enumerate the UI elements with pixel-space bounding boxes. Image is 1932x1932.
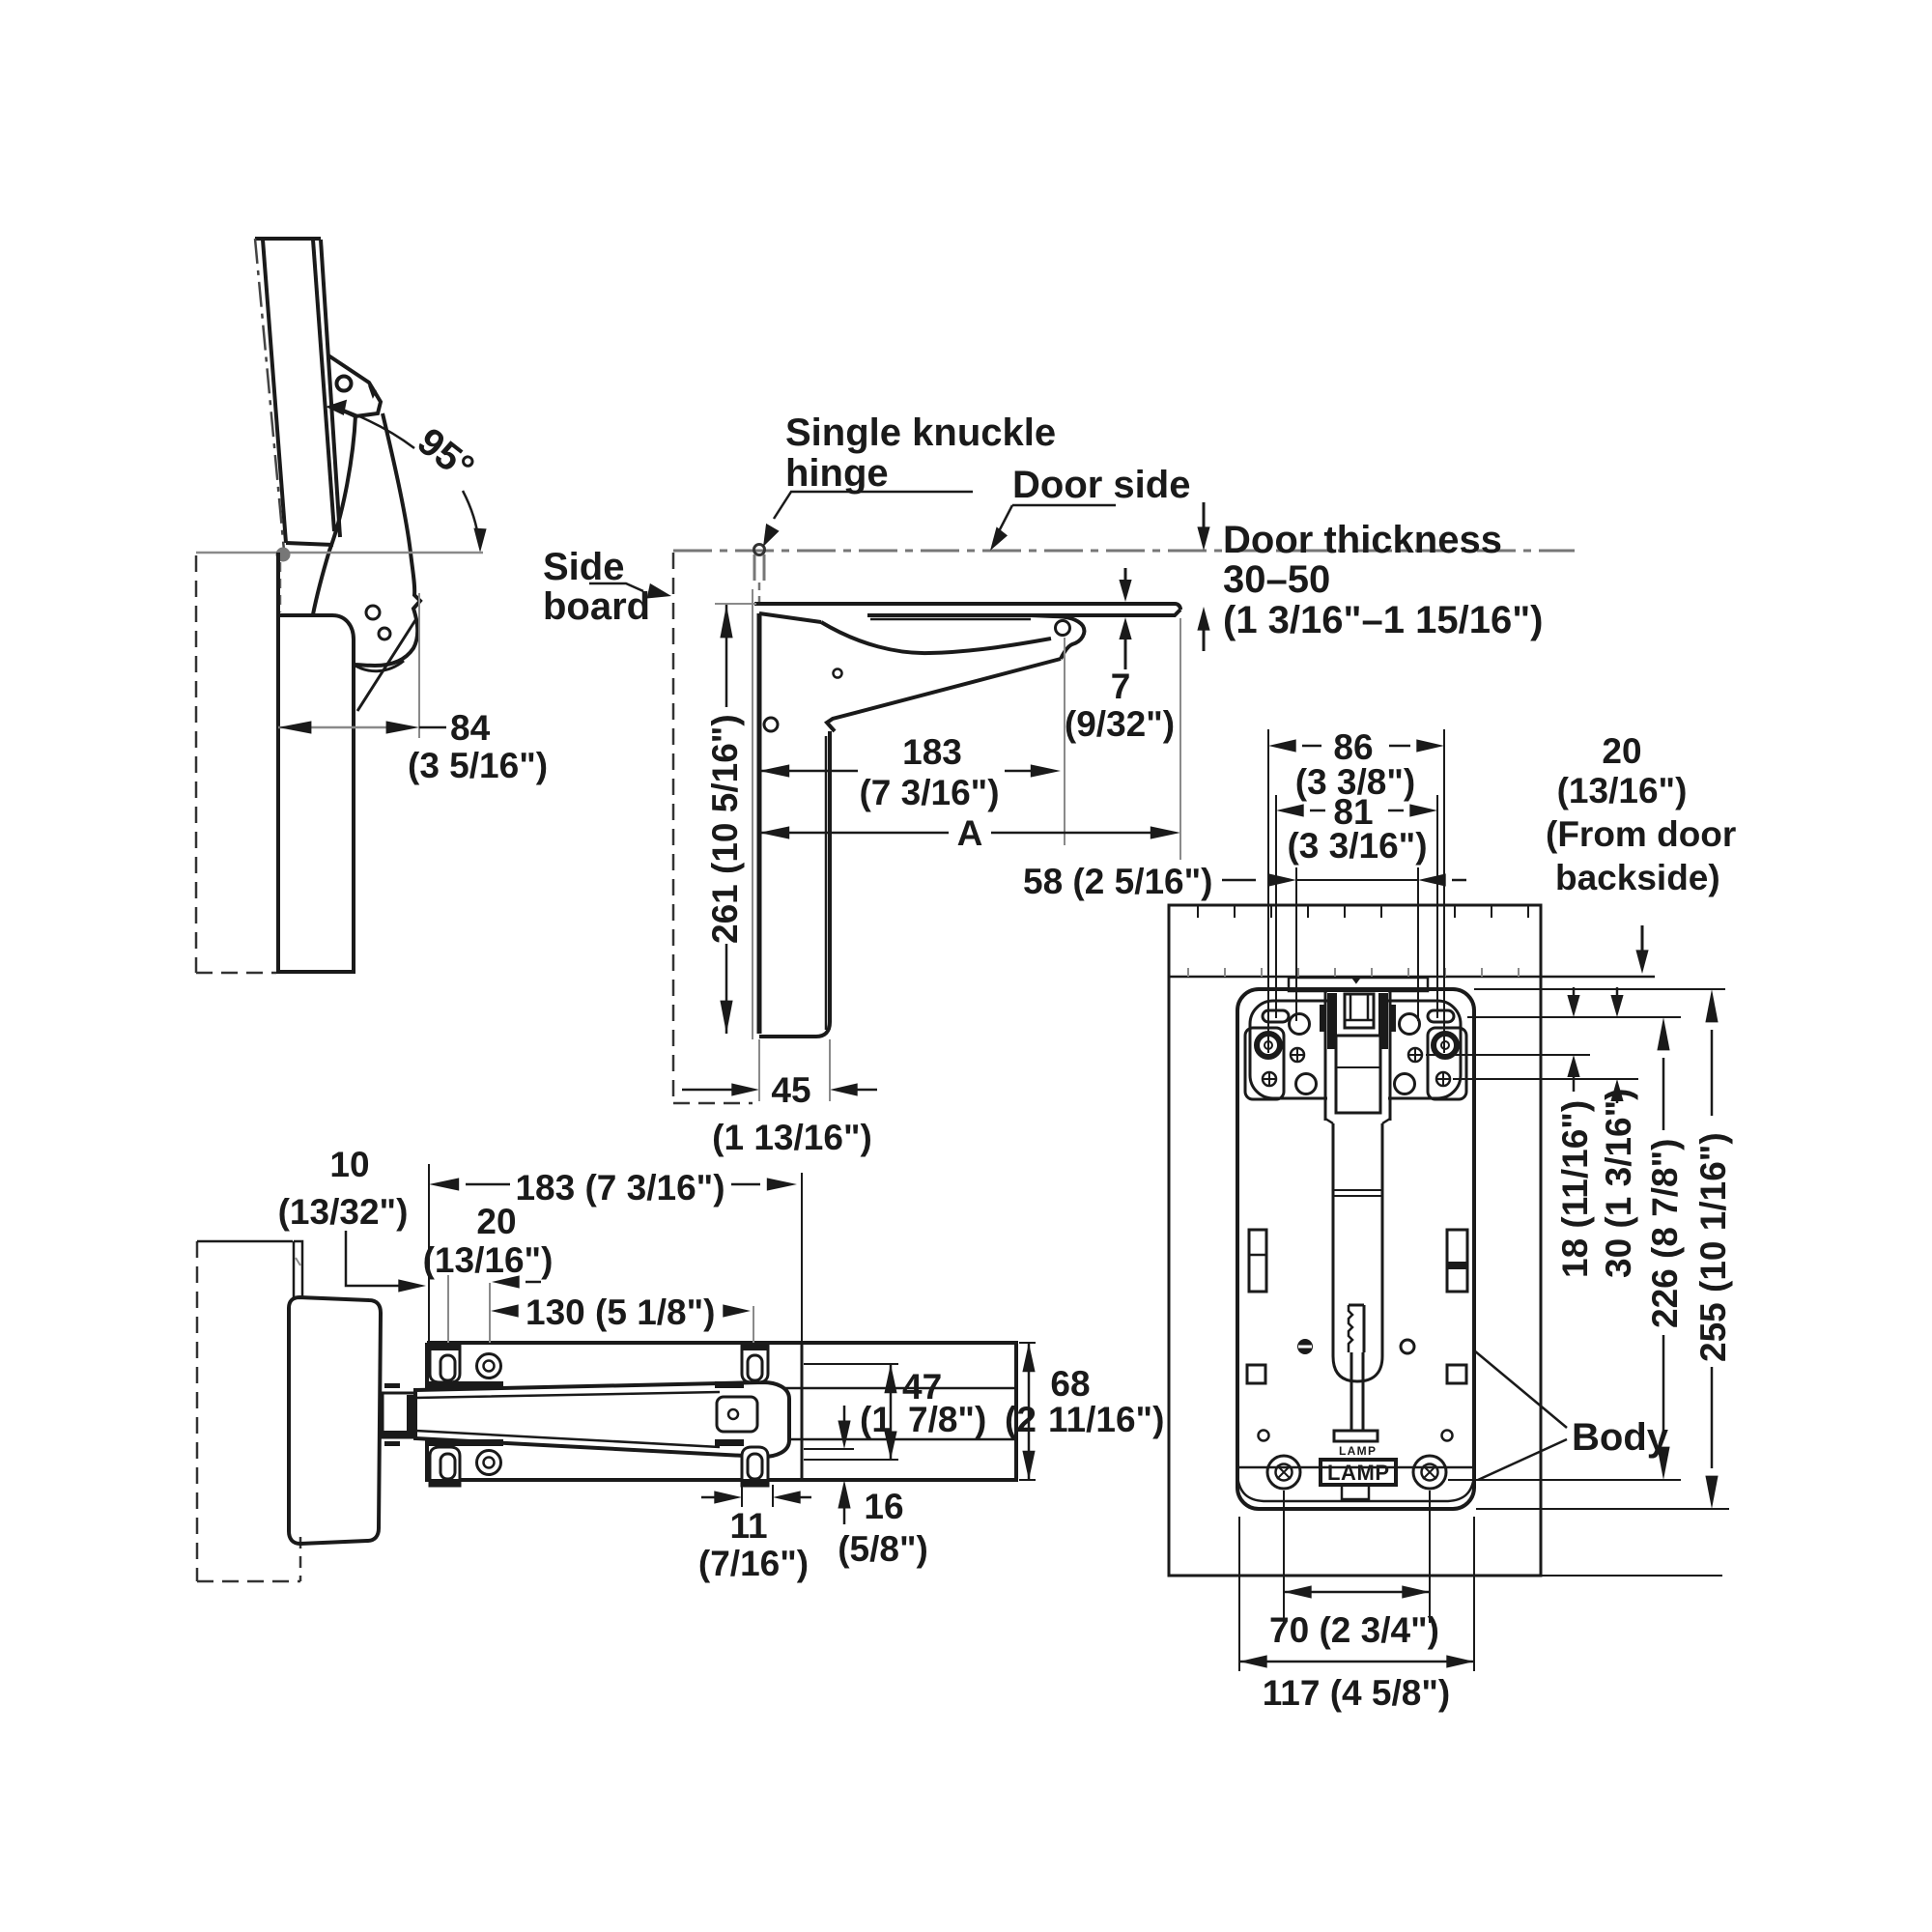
left sub plate <box>1245 1028 1284 1099</box>
95 degree arc <box>340 409 414 448</box>
svg-text:backside): backside) <box>1555 858 1720 897</box>
open door panel (top view) <box>289 1297 381 1544</box>
dimension 7 arrows <box>1124 568 1127 589</box>
sideboard dashed outline (view1) <box>195 555 198 973</box>
inner rod with ratchet <box>1349 1305 1364 1352</box>
dimension 183 extension (view3) <box>428 1164 430 1343</box>
door centerline dash-dot <box>255 239 284 551</box>
mounting tab top-right <box>742 1345 768 1382</box>
svg-text:58 (2 5/16"): 58 (2 5/16") <box>1023 862 1213 901</box>
svg-text:(7/16"): (7/16") <box>698 1544 809 1583</box>
mounting tab top-left <box>430 1345 460 1382</box>
slider block <box>1336 1036 1380 1113</box>
svg-text:Door side: Door side <box>1012 464 1190 506</box>
svg-text:LAMP: LAMP <box>1339 1444 1376 1458</box>
small circles above screws <box>1259 1431 1269 1441</box>
arm inner lines <box>415 1392 720 1447</box>
arc arrowhead at door <box>326 400 347 415</box>
dimension 30 arrows <box>1616 987 1619 1006</box>
dimension 45 <box>682 1089 747 1092</box>
round holes lower row <box>1296 1074 1317 1094</box>
arm diagonal fold line <box>357 620 415 711</box>
sideboard front edge line <box>752 589 753 1039</box>
door slab bottom edge <box>867 610 1180 615</box>
hinge knuckle pivot dot <box>276 548 291 562</box>
svg-text:130 (5 1/8"): 130 (5 1/8") <box>526 1293 716 1332</box>
svg-text:183 (7 3/16"): 183 (7 3/16") <box>515 1168 724 1207</box>
svg-text:A: A <box>957 813 983 853</box>
svg-text:(9/32"): (9/32") <box>1065 704 1175 744</box>
rail dark strips <box>428 1381 503 1388</box>
dimension 58 extension lines and arrows <box>1296 867 1418 1021</box>
door strip bottom line <box>1169 976 1655 979</box>
hinge cup bracket on door <box>328 355 381 416</box>
body outer rounded rect <box>1237 989 1474 1509</box>
screw circles top view <box>477 1354 501 1378</box>
svg-text:7/8"): 7/8") <box>908 1400 986 1439</box>
svg-text:(1 3/16"–1 15/16"): (1 3/16"–1 15/16") <box>1223 599 1543 641</box>
body bottom with rounded corner <box>759 731 830 1037</box>
arm bottom smile curve <box>354 661 404 671</box>
dimension 16 leader <box>804 1448 854 1450</box>
closed door dashed outline (top view) <box>196 1241 199 1581</box>
svg-text:LAMP: LAMP <box>1327 1461 1389 1485</box>
svg-text:183: 183 <box>902 732 962 772</box>
lower small cross circles <box>1263 1072 1276 1086</box>
svg-text:84: 84 <box>450 708 491 748</box>
dimension 70 extension lines <box>1284 1491 1430 1623</box>
svg-text:Single knuckle: Single knuckle <box>785 412 1056 454</box>
dimension 68 <box>1019 1343 1036 1480</box>
svg-text:7: 7 <box>1111 667 1131 706</box>
arm hole circle left <box>764 718 778 731</box>
body leader lines <box>1474 1350 1567 1428</box>
side square tabs lower <box>1247 1365 1265 1383</box>
door strip hatch ticks <box>1198 905 1528 918</box>
door side underline and leader <box>998 505 1116 533</box>
svg-text:16: 16 <box>864 1487 903 1526</box>
T foot bar <box>1334 1431 1378 1441</box>
dimension 130 (5 1/8") <box>489 1283 491 1343</box>
knuckle edge ticks <box>384 1383 400 1388</box>
right side reference lines <box>1474 988 1725 990</box>
svg-text:(5/8"): (5/8") <box>838 1529 928 1569</box>
dimension 81 <box>1276 795 1437 1018</box>
svg-text:117 (4 5/8"): 117 (4 5/8") <box>1263 1673 1450 1713</box>
dimension 261 line <box>715 603 756 605</box>
support arm (folded) left curve <box>313 415 355 614</box>
top bracket plate above body <box>1289 978 1428 991</box>
arm (top view) white body over rails <box>415 1382 789 1457</box>
arc arrowhead at sideboard line <box>473 528 486 553</box>
arm pivot circle <box>1056 621 1070 636</box>
svg-text:(13/16"): (13/16") <box>423 1240 554 1280</box>
inner mounting plate <box>1250 1001 1461 1098</box>
A right extension line <box>1179 618 1181 860</box>
small cross circles mid <box>1291 1048 1304 1062</box>
dimension 84 line with arrows <box>278 726 410 729</box>
arm screw hole circles <box>366 606 380 619</box>
svg-text:(2: (2 <box>1005 1400 1037 1439</box>
dimension 18 arrows <box>1573 987 1576 1006</box>
support arm (folded) right curve <box>354 413 420 666</box>
single knuckle hinge leader <box>774 492 973 519</box>
svg-text:Side: Side <box>543 546 624 588</box>
LAMP logo box <box>1321 1460 1396 1485</box>
svg-text:68: 68 <box>1050 1364 1090 1404</box>
central channel walls <box>1325 991 1390 1121</box>
single knuckle hinge circle <box>754 545 765 555</box>
small rect below LAMP <box>1342 1485 1369 1499</box>
dimension A <box>759 832 949 835</box>
sideboard dashed outline (view2) <box>672 553 675 1103</box>
arm hole circle small <box>834 669 842 678</box>
mounting tab bottom-right <box>742 1447 768 1486</box>
door panel tilted (open 95deg) <box>255 239 340 545</box>
knuckle pivot block <box>383 1393 415 1437</box>
piston tube <box>1333 1123 1382 1381</box>
bottom inner rounded corners <box>1237 1476 1474 1501</box>
dimension 226 line <box>1657 1017 1669 1050</box>
svg-text:255 (10 1/16"): 255 (10 1/16") <box>1693 1132 1733 1362</box>
round holes top row <box>1290 1014 1310 1035</box>
arm inner rect and circle <box>717 1397 757 1432</box>
svg-text:Door thickness: Door thickness <box>1223 519 1502 561</box>
svg-text:70 (2 3/4"): 70 (2 3/4") <box>1269 1610 1439 1650</box>
svg-text:20: 20 <box>1602 731 1641 771</box>
side tall tabs <box>1249 1230 1266 1292</box>
arm end bracket at door <box>1031 615 1084 659</box>
arm bottom diagonal (open) <box>827 659 1061 731</box>
svg-text:30–50: 30–50 <box>1223 558 1330 601</box>
svg-text:hinge: hinge <box>785 452 889 495</box>
closed door / body housing rounded rect (view1) <box>278 553 354 972</box>
dimension 86 <box>1268 729 1444 1053</box>
slot holes top row <box>1263 1010 1289 1022</box>
svg-text:(7 3/16"): (7 3/16") <box>859 773 999 812</box>
circle mid right <box>1401 1340 1414 1353</box>
side board leader <box>589 583 643 591</box>
central channel white mask <box>1327 992 1388 1119</box>
dimension 47 arrows <box>890 1364 893 1460</box>
svg-text:Body: Body <box>1572 1416 1669 1459</box>
dimension 183 (view2) <box>759 770 858 773</box>
body top edge sloping <box>759 613 821 622</box>
svg-text:10: 10 <box>329 1145 369 1184</box>
svg-text:(3 3/16"): (3 3/16") <box>1287 826 1427 866</box>
plate notch triangle <box>1351 978 1361 984</box>
knuckle hidden centerline dashed <box>758 582 761 609</box>
svg-text:(3 5/16"): (3 5/16") <box>408 746 548 785</box>
svg-text:board: board <box>543 585 650 628</box>
cross screws row <box>1257 1034 1280 1057</box>
door backside panel outline <box>1169 905 1541 1576</box>
thin rod below <box>1351 1352 1363 1431</box>
body internal right wall <box>801 1343 804 1480</box>
door slab inner groove <box>870 618 1031 621</box>
channel black bars <box>1327 993 1337 1049</box>
dimension 20 from door backside <box>1641 925 1644 960</box>
dimension 117 arrows <box>1239 1661 1474 1663</box>
dimension 117 extension lines <box>1239 1517 1474 1671</box>
big screws bottom <box>1267 1456 1300 1489</box>
body rail edges <box>427 1388 1016 1439</box>
hinge cup black notch <box>368 385 377 399</box>
step lines <box>1325 1119 1390 1123</box>
dimension 183 (7 3/16") view3 <box>429 1178 459 1190</box>
body (top view) outline <box>427 1343 1016 1480</box>
svg-text:86: 86 <box>1333 727 1373 767</box>
svg-text:226 (8 7/8"): 226 (8 7/8") <box>1645 1139 1685 1329</box>
svg-text:18 (11/16"): 18 (11/16") <box>1555 1100 1595 1278</box>
extension line from pivot <box>1064 638 1065 845</box>
dimension 84 extension line <box>418 593 420 738</box>
mounting tab bottom-left <box>430 1447 460 1486</box>
dimension 47 leader lines <box>804 1363 898 1365</box>
door slab top edge (open door) <box>754 604 1180 610</box>
sideboard top line (view1) <box>196 552 483 554</box>
tube U bottom <box>1333 1356 1382 1381</box>
body inner right line <box>825 736 828 1030</box>
svg-text:11: 11 <box>729 1506 767 1546</box>
hook piece <box>1345 994 1374 1028</box>
svg-text:(13/16"): (13/16") <box>1557 771 1688 810</box>
svg-text:261 (10 5/16"): 261 (10 5/16") <box>705 714 745 944</box>
svg-text:20: 20 <box>476 1202 516 1241</box>
dark screw mid left <box>1297 1339 1313 1354</box>
svg-text:(From door: (From door <box>1546 814 1736 854</box>
dimension 255 line <box>1705 989 1718 1022</box>
svg-text:30 (1 3/16"): 30 (1 3/16") <box>1599 1089 1638 1279</box>
svg-text:11/16"): 11/16") <box>1048 1400 1164 1439</box>
dimension 70 arrows <box>1284 1591 1430 1594</box>
door side dash-dot line <box>673 550 1575 553</box>
svg-text:(1: (1 <box>860 1400 892 1439</box>
svg-text:(13/32"): (13/32") <box>278 1192 409 1232</box>
bottom cap line <box>1237 1466 1474 1469</box>
svg-text:45: 45 <box>771 1070 810 1110</box>
body (open view) thick left edge <box>757 613 762 1034</box>
door thickness dimension arrows <box>1203 502 1206 537</box>
dimension 11 arrows <box>701 1496 734 1499</box>
right sub plate <box>1428 1028 1466 1099</box>
knuckle leaf ticks <box>754 554 764 581</box>
svg-text:(1 13/16"): (1 13/16") <box>712 1118 872 1157</box>
arm top curve (open) <box>821 622 1051 653</box>
door hidden edge dashed (below pivot) <box>279 562 282 612</box>
door edge strip <box>294 1241 302 1297</box>
door bottom edge extension <box>1541 1575 1722 1577</box>
